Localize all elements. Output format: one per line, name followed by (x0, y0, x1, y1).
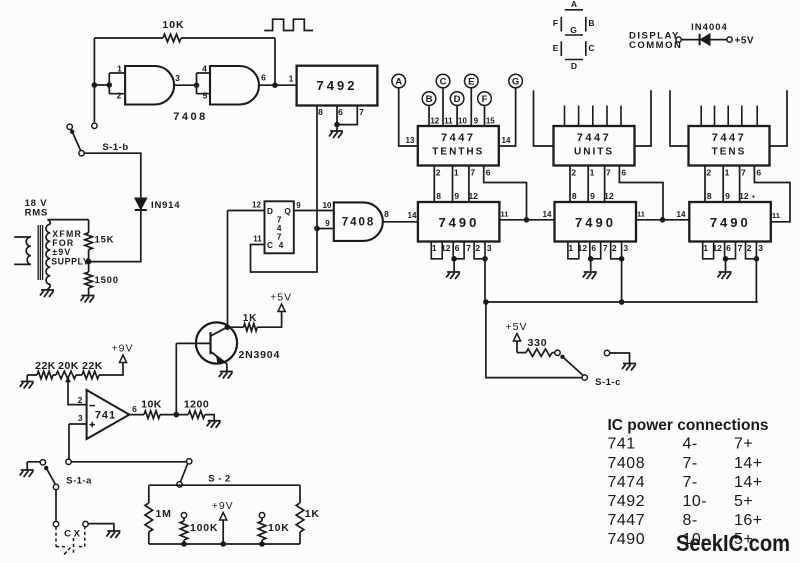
svg-text:C: C (588, 43, 594, 53)
svg-text:A: A (395, 76, 402, 87)
node 10K bottom (259, 541, 265, 547)
node 7490 tenths pins 2-3 (482, 256, 488, 262)
svg-text:22K: 22K (35, 360, 56, 372)
svg-text:6: 6 (726, 243, 731, 253)
node oscillator output (272, 82, 278, 88)
wire to 7408 pin 9 (317, 228, 334, 230)
segment C (585, 41, 587, 56)
display bus wire units left (534, 90, 554, 146)
display bus wire tens right (770, 90, 787, 146)
wire pot chain (27, 363, 123, 376)
wire tens 7490 pin 11 (771, 220, 790, 222)
svg-text:2N3904: 2N3904 (239, 349, 281, 361)
svg-text:7492: 7492 (317, 78, 358, 93)
square wave symbol (264, 19, 313, 30)
svg-text:S-1-a: S-1-a (66, 476, 92, 487)
diode 1N914 (135, 198, 147, 210)
svg-text:7: 7 (470, 168, 475, 178)
svg-text:2: 2 (706, 168, 711, 178)
svg-text:14: 14 (502, 136, 511, 145)
IC 7447 tenths (418, 126, 499, 166)
resistor 10K timing (261, 518, 263, 544)
segment A (565, 9, 583, 11)
wire to diode (681, 39, 699, 41)
wire 7447 tens pin 7 to 7490 pin 12 (739, 166, 741, 203)
node 7492 pins 6-7 (334, 122, 340, 128)
ground 7490 units (590, 259, 592, 272)
wire S-1-c contact to ground (610, 353, 630, 364)
svg-text:7-: 7- (683, 455, 698, 472)
resistor 330 (517, 341, 555, 353)
svg-text:9: 9 (325, 219, 330, 228)
svg-text:7: 7 (741, 168, 746, 178)
svg-text:100K: 100K (190, 522, 218, 534)
resistor 1K collector (227, 312, 281, 328)
svg-text:12: 12 (252, 201, 261, 210)
ground transformer (48, 284, 50, 290)
node 7490 units pins 2-3 (619, 256, 625, 262)
svg-text:7: 7 (359, 107, 364, 117)
resistor 20K pot (56, 371, 76, 379)
wire E to pin 9 (470, 88, 472, 126)
node tenths bus (483, 299, 489, 305)
svg-text:3: 3 (758, 243, 763, 253)
wire base (176, 342, 210, 344)
resistor 22K right (82, 371, 99, 379)
svg-text:3: 3 (623, 243, 628, 253)
svg-text:3: 3 (487, 243, 492, 253)
wire D to pin 10 (456, 105, 458, 126)
svg-text:6: 6 (756, 168, 761, 178)
svg-text:12: 12 (578, 243, 588, 253)
switch S-1-b (67, 124, 72, 129)
svg-text:G: G (512, 76, 519, 87)
svg-text:15: 15 (486, 117, 495, 126)
wire to S-2 pole (71, 461, 186, 463)
and-gate 7408c (334, 202, 383, 241)
capacitor CX symbol (73, 538, 75, 554)
svg-text:9: 9 (725, 191, 730, 201)
svg-text:D: D (571, 61, 577, 71)
svg-text:SUPPLY: SUPPLY (51, 256, 89, 266)
ground 1200 (207, 421, 221, 428)
svg-text:741: 741 (95, 410, 116, 422)
svg-text:10-: 10- (683, 493, 708, 510)
svg-text:7492: 7492 (608, 493, 646, 510)
switch S-1-c (555, 350, 560, 355)
wire secondary top (47, 220, 88, 225)
wire 7447 units pin 1 to 7490 pin 9 (587, 166, 589, 203)
svg-text:TENS: TENS (712, 147, 747, 158)
switch S-2 (187, 459, 192, 464)
node units-tens clock (660, 217, 666, 223)
wire op-amp output pin 6 (129, 414, 176, 416)
node segment A (392, 74, 406, 88)
wire to gate U1 inputs (94, 73, 125, 94)
node 7490 tens pins 2-3 (754, 256, 760, 262)
IC 7447 tens (689, 126, 770, 166)
wire 7474 D input pin 12 (228, 210, 265, 212)
svg-text:6: 6 (621, 168, 626, 178)
svg-text:UNITS: UNITS (574, 147, 614, 158)
svg-text:9: 9 (590, 191, 595, 201)
wire CX to ground (88, 524, 114, 531)
svg-text:8: 8 (436, 191, 441, 201)
svg-text:+5V: +5V (270, 292, 292, 304)
svg-text:2: 2 (747, 243, 752, 253)
wire F to pin 15 (484, 105, 486, 126)
wire bus down to S-1-c (486, 302, 582, 378)
node collector (225, 324, 231, 330)
segment G (565, 34, 583, 36)
node display common terminal (676, 37, 681, 42)
svg-text:1200: 1200 (184, 399, 209, 411)
transistor Q1 2N3904 (196, 322, 237, 363)
svg-text:1: 1 (117, 64, 122, 74)
svg-text:7408: 7408 (608, 455, 646, 472)
svg-text:14: 14 (543, 210, 552, 219)
svg-text:16+: 16+ (734, 512, 763, 529)
wire S-2 top rail (149, 484, 300, 486)
svg-text:RMS: RMS (25, 208, 49, 219)
svg-text:1K: 1K (305, 508, 320, 520)
node supply junction (86, 259, 92, 265)
svg-text:F: F (553, 18, 558, 28)
wire 7408 out pin 8 to tenths 7490 pin 14 (383, 221, 418, 223)
svg-text:C: C (440, 76, 447, 87)
svg-text:3: 3 (175, 73, 180, 83)
svg-text:7: 7 (738, 243, 743, 253)
svg-text:A: A (571, 0, 577, 9)
svg-text:2: 2 (78, 395, 83, 405)
IC 7492 (297, 66, 378, 106)
pot wiper arrow (65, 376, 71, 383)
node segment C (436, 74, 450, 88)
svg-text:12: 12 (604, 191, 614, 201)
segment F (560, 17, 562, 32)
transformer T1 primary (14, 237, 31, 264)
svg-text:7: 7 (466, 243, 471, 253)
svg-text:2: 2 (436, 168, 441, 178)
svg-text:330: 330 (528, 337, 548, 349)
svg-text:8: 8 (707, 191, 712, 201)
resistor 1200 (176, 415, 214, 421)
and-gate 7408a (125, 66, 174, 105)
wire 7490 units pin 3 down to +5V bus (621, 259, 623, 302)
svg-text:6: 6 (486, 168, 491, 178)
segment E (560, 41, 562, 56)
wire 7447 tenths pin 1 to 7490 pin 9 (452, 166, 454, 203)
svg-text:7490: 7490 (608, 531, 646, 548)
wire S-2 bottom rail (149, 543, 300, 545)
node gate2 input junction (194, 82, 200, 88)
pins 1 12 6 7 2 3 of 7490 tenths (431, 242, 442, 259)
svg-text:7490: 7490 (575, 215, 616, 230)
svg-text:10: 10 (458, 117, 467, 126)
svg-text:7: 7 (606, 168, 611, 178)
svg-text:IN4004: IN4004 (691, 22, 728, 33)
wire diode down to supply node (89, 210, 141, 262)
node 7490 tens pins 12-6 (723, 256, 729, 262)
ground emitter (226, 364, 228, 372)
svg-text:S-1-b: S-1-b (102, 142, 128, 153)
svg-text:IC power connections: IC power connections (608, 417, 769, 434)
power +5V collector (270, 292, 292, 312)
ground pot chain (26, 375, 28, 382)
diode 1N4004 (699, 34, 701, 46)
stray dot after tens 12 (752, 195, 754, 197)
wire 7490 tenths pin 3 down to +5V bus (484, 259, 486, 302)
svg-text:7447: 7447 (608, 512, 646, 529)
node op-amp input terminal (66, 459, 71, 464)
IC 7490 tens (689, 202, 771, 242)
svg-text:+9V: +9V (112, 343, 134, 355)
op-amp U1 741 (87, 390, 130, 439)
resistor 22K left (37, 371, 53, 379)
wire 7474 C input pin 11 loop (251, 229, 318, 273)
resistor 10K output (144, 411, 160, 419)
svg-text:2: 2 (475, 243, 480, 253)
IC 7490 units (555, 202, 637, 242)
node CX right terminal (83, 521, 88, 526)
svg-text:11: 11 (772, 211, 780, 220)
svg-text:741: 741 (608, 436, 636, 453)
resistor 1500 (88, 262, 90, 295)
svg-text:13: 13 (406, 136, 415, 145)
resistor 1M (148, 485, 150, 544)
wire diode to +5V (710, 39, 727, 41)
svg-text:14+: 14+ (734, 455, 763, 472)
svg-text:4: 4 (279, 241, 284, 250)
svg-text:7490: 7490 (438, 215, 479, 230)
svg-text:15K: 15K (95, 235, 115, 246)
svg-text:6: 6 (261, 73, 266, 83)
switch S-1-a (40, 460, 45, 465)
IC 7447 units (554, 126, 635, 166)
transformer T1 secondary (46, 224, 50, 284)
wire tenths 7490 pin 11 to units 7490 pin 14 (499, 219, 554, 221)
svg-text:2: 2 (117, 91, 122, 101)
svg-text:B: B (426, 94, 433, 105)
node output junction (174, 412, 180, 418)
segment D (565, 59, 583, 61)
svg-text:12: 12 (430, 117, 439, 126)
svg-text:8: 8 (572, 191, 577, 201)
transformer core (38, 225, 42, 280)
wire 7447 tenths pin 2 to 7490 pin 8 (433, 166, 435, 203)
svg-text:7447: 7447 (441, 132, 475, 144)
svg-text:6: 6 (132, 404, 137, 414)
node 7490 tenths pins 12-6 (451, 256, 457, 262)
svg-text:8-: 8- (683, 512, 698, 529)
pin 7 of 7492 (337, 106, 357, 125)
svg-text:+5V: +5V (506, 321, 528, 333)
power +5V display (506, 321, 528, 341)
IC 7474 (265, 201, 294, 253)
svg-text:COMMON: COMMON (629, 40, 682, 51)
svg-text:IN914: IN914 (151, 200, 180, 211)
and-gate 7408b (210, 66, 259, 105)
svg-text:5+: 5+ (734, 531, 753, 548)
node segment B (422, 92, 436, 106)
wire 7490 tens pin 3 down to +5V bus (755, 259, 757, 302)
node +9V bottom (220, 541, 226, 547)
svg-text:9: 9 (474, 117, 479, 126)
svg-text:9: 9 (454, 191, 459, 201)
table IC power connections (608, 417, 769, 548)
wire +5V bus (486, 301, 758, 303)
node 100K bottom (181, 541, 187, 547)
ground 7490 tens (725, 259, 727, 272)
svg-text:1500: 1500 (95, 275, 119, 286)
svg-text:14+: 14+ (734, 474, 763, 491)
svg-text:10K: 10K (268, 522, 290, 534)
svg-text:D: D (454, 94, 461, 105)
ground S-1-a (27, 462, 40, 470)
svg-text:7474: 7474 (608, 474, 646, 491)
resistor 10K feedback (163, 34, 181, 42)
svg-text:1: 1 (289, 74, 294, 84)
svg-text:6: 6 (338, 107, 343, 117)
node 100K contact (181, 513, 186, 518)
resistor 1K timing (299, 485, 301, 544)
svg-text:G: G (570, 25, 577, 35)
svg-text:10K: 10K (162, 19, 184, 31)
pins 1 12 6 7 2 3 of 7490 tens (703, 242, 714, 259)
wire gate2 output to 7492 pin 1 (259, 84, 297, 86)
node segment D (450, 92, 464, 106)
svg-text:14: 14 (408, 211, 417, 220)
svg-text:6: 6 (591, 243, 596, 253)
capacitor CX dashed leads (56, 527, 85, 547)
pin 6 of 7492 (336, 106, 338, 125)
wire units 7490 pin 11 to tens 7490 pin 14 (636, 219, 689, 221)
wire D input down to collector node (227, 211, 229, 327)
pins 1 12 6 7 2 3 of 7490 units (568, 242, 579, 259)
node units bus (619, 299, 625, 305)
wire 7447 tens pin 6 (754, 166, 790, 220)
svg-text:7-: 7- (683, 474, 698, 491)
svg-text:2: 2 (571, 168, 576, 178)
resistor 15K (88, 220, 90, 262)
power +9V pot (112, 343, 134, 363)
svg-text:11: 11 (253, 235, 262, 244)
wire G to 7447 tenths pin 14 (499, 88, 516, 146)
svg-text:7490: 7490 (710, 215, 751, 230)
node segment F (478, 92, 492, 106)
svg-text:12: 12 (468, 191, 478, 201)
svg-text:2: 2 (612, 243, 617, 253)
wire 7447 tenths pin 7 to 7490 pin 12 (468, 166, 470, 203)
svg-text:S - 2: S - 2 (208, 474, 231, 485)
display pins of 7447 tens (701, 106, 757, 127)
svg-text:1: 1 (725, 168, 730, 178)
svg-text:11: 11 (444, 117, 453, 126)
ground S-1-c (622, 364, 636, 371)
display bus wire tens left (670, 90, 689, 146)
svg-text:7+: 7+ (734, 436, 753, 453)
svg-text:10: 10 (323, 201, 332, 210)
svg-text:4-: 4- (683, 436, 698, 453)
svg-text:6: 6 (455, 243, 460, 253)
svg-text:12: 12 (441, 243, 451, 253)
node segment G (509, 74, 523, 88)
svg-text:22K: 22K (82, 360, 103, 372)
svg-text:8: 8 (384, 209, 389, 219)
ground CX (106, 531, 120, 538)
svg-text:1K: 1K (243, 313, 257, 324)
node gate input junction (92, 82, 98, 88)
svg-text:+5V: +5V (735, 36, 755, 47)
node +5V terminal (727, 37, 732, 42)
svg-text:1: 1 (590, 168, 595, 178)
wire C to pin 11 (442, 88, 444, 126)
svg-text:1: 1 (454, 168, 459, 178)
wire 7447 units pin 2 to 7490 pin 8 (569, 166, 571, 203)
wire S-1-a pole down to CX (55, 490, 57, 522)
svg-text:1: 1 (432, 243, 437, 253)
node S-1-c ground contact (604, 350, 609, 355)
wire A to 7447 tenths pin 13 (399, 88, 418, 146)
svg-text:S-1-c: S-1-c (595, 377, 621, 388)
ground 1500 (81, 296, 95, 303)
svg-text:E: E (553, 43, 559, 53)
wire 7474 Q pin 9 to 7408 pin 10 (294, 210, 334, 212)
node clock junction (314, 226, 320, 232)
wire 7447 tenths pin 6 (484, 166, 527, 220)
node 10K contact (259, 513, 264, 518)
display bus wire units right (634, 90, 652, 146)
wire S-1-b to diode (84, 153, 141, 198)
svg-text:11: 11 (637, 210, 645, 219)
svg-text:20K: 20K (58, 360, 79, 372)
svg-text:7447: 7447 (712, 132, 746, 144)
svg-text:5+: 5+ (734, 493, 753, 510)
svg-text:7: 7 (603, 243, 608, 253)
svg-text:4: 4 (202, 64, 207, 74)
svg-text:11: 11 (501, 210, 509, 219)
svg-text:1: 1 (568, 243, 573, 253)
wire inverting input pin 3 (69, 424, 87, 459)
svg-text:+9V: +9V (212, 500, 234, 512)
svg-text:12: 12 (712, 243, 722, 253)
svg-text:8: 8 (318, 107, 323, 117)
resistor 100K (183, 518, 185, 544)
ground 7490 tenths (453, 259, 455, 272)
node 7490 units pins 12-6 (588, 256, 594, 262)
wire 7447 tens pin 2 to 7490 pin 8 (704, 166, 706, 203)
svg-text:1: 1 (703, 243, 708, 253)
svg-text:9: 9 (296, 201, 301, 210)
pin 8 of 7492 wire down (316, 106, 318, 229)
svg-text:B: B (588, 18, 594, 28)
node segment E (465, 74, 479, 88)
wire feedback top (94, 38, 275, 85)
svg-text:7408: 7408 (342, 217, 376, 229)
svg-text:C: C (267, 241, 273, 250)
IC 7490 tenths (418, 202, 500, 242)
svg-text:1M: 1M (156, 508, 172, 520)
node tenths-units clock (524, 217, 530, 223)
svg-text:TENTHS: TENTHS (432, 147, 484, 158)
wire B to pin 12 (428, 105, 430, 126)
svg-text:7408: 7408 (173, 111, 207, 123)
svg-text:Q: Q (284, 207, 291, 216)
svg-text:C X: C X (64, 529, 81, 540)
svg-text:D: D (267, 207, 273, 216)
wire left vertical to S-1-b (93, 38, 95, 122)
svg-text:F: F (482, 94, 488, 105)
